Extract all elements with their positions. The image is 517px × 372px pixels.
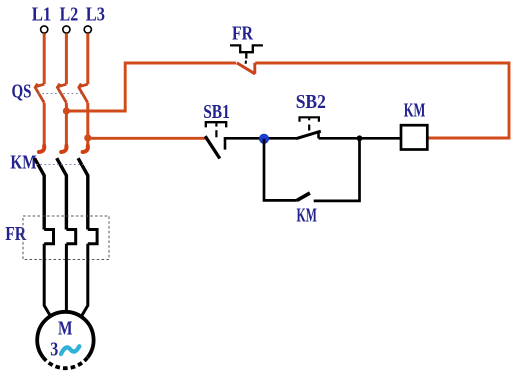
QS pole 1 (35, 84, 44, 103)
svg-text:KM: KM (404, 100, 426, 122)
FR dashed box (23, 216, 109, 260)
wire to motor phase 3 (81, 244, 88, 317)
svg-text:SB2: SB2 (296, 91, 326, 113)
svg-text:L3: L3 (86, 3, 105, 25)
FR heater element 1 (44, 230, 53, 244)
svg-text:KM: KM (10, 152, 36, 174)
wire self-hold branch left (264, 139, 297, 201)
wire hook L3 (83, 146, 88, 152)
wire L1 below QS (43, 103, 46, 147)
motor M circle (37, 312, 93, 358)
SB2 stem dash (308, 125, 310, 131)
KM main contact pole 3 (78, 158, 88, 229)
wire L1 top (43, 33, 46, 84)
KM linkage dashed (36, 164, 85, 166)
svg-text:KM: KM (297, 205, 317, 227)
wire L3 top (86, 33, 89, 84)
wire hook L2 (61, 146, 66, 152)
junction on L2 to control rail (63, 107, 70, 114)
FR release bracket (230, 45, 263, 52)
SB1 right terminal (225, 138, 298, 149)
svg-text:L2: L2 (60, 3, 79, 25)
wire to motor phase 1 (44, 244, 51, 317)
wire SB2 to coil (319, 137, 402, 140)
FR release stem (245, 52, 247, 58)
wire L3 below QS (86, 103, 89, 147)
FR heater element 2 (66, 230, 75, 244)
KM auxiliary NO contact blade (297, 193, 310, 200)
QS pole 3 (79, 84, 88, 103)
wire self-hold branch right (314, 138, 360, 201)
SB2 right tick (317, 132, 320, 139)
svg-text:M: M (58, 318, 73, 340)
wire to motor phase 2 (65, 244, 68, 314)
SB2 cap (300, 117, 319, 122)
wire top rail right of FR (255, 63, 509, 138)
svg-text:3: 3 (50, 339, 58, 361)
junction node blue dot (259, 134, 268, 143)
contactor coil KM box (401, 125, 427, 149)
svg-text:FR: FR (232, 23, 253, 45)
QS linkage dashed (38, 93, 84, 95)
SB1 NC blade (205, 136, 220, 158)
terminal L3 (84, 26, 91, 33)
wire L2 below QS (65, 103, 68, 147)
terminal L1 (41, 26, 48, 33)
FR NC contact blade (237, 63, 255, 74)
svg-text:QS: QS (12, 81, 32, 103)
svg-text:L1: L1 (32, 3, 52, 25)
SB1 stem dash (215, 130, 217, 137)
junction node black dot (357, 135, 363, 141)
FR heater element 3 (88, 230, 97, 244)
wire junction L2 to riser (66, 63, 236, 111)
SB1 cap (206, 122, 226, 127)
SB2 NO blade (296, 131, 321, 138)
wire hook L1 (39, 146, 44, 152)
junction on L3 to control rail (84, 134, 91, 141)
wire L2 top (65, 33, 68, 84)
KM main contact pole 1 (35, 158, 45, 229)
terminal L2 (63, 26, 70, 33)
FR NC contact stub (253, 63, 256, 74)
KM main contact pole 2 (57, 158, 67, 229)
QS pole 2 (57, 84, 66, 103)
svg-text:SB1: SB1 (203, 101, 230, 123)
wire junction L3 to SB1 (88, 137, 206, 140)
motor ~ tilde (61, 346, 79, 354)
